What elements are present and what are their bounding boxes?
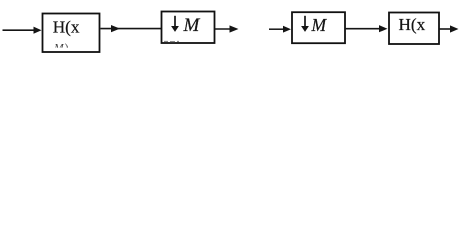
faint clipped text remnant at box bottom <box>164 40 179 42</box>
wire output arrow of D1 <box>215 25 239 32</box>
wire D2 to H2 <box>345 25 388 32</box>
wire input arrow into H(x^M) <box>3 27 42 34</box>
svg-text:M: M <box>311 15 328 35</box>
wire output arrow of H2 <box>440 25 459 32</box>
downsampler block D2: down-arrow M <box>292 12 345 43</box>
wire H1 to downsampler D1 <box>101 25 162 32</box>
wire input arrow into D2 <box>269 26 291 33</box>
svg-text:H(x: H(x <box>399 15 426 34</box>
svg-text:H(x: H(x <box>53 18 80 37</box>
downsampler block D1: down-arrow M <box>162 12 215 44</box>
svg-text:M: M <box>183 15 201 36</box>
filter block H2: H(x <box>389 13 439 45</box>
